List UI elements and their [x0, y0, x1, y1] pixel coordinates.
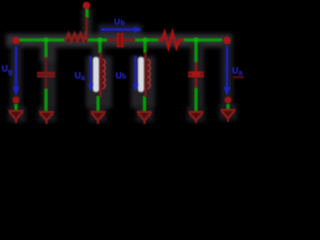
label across L1: [75, 71, 86, 83]
voltage arrow UBr (top, blue, right): [101, 26, 142, 33]
wire left rail segment: [19, 38, 65, 41]
label Ua (right): [232, 66, 243, 78]
terminal supply top (red circle): [83, 2, 91, 10]
pin lead from supply terminal down to rail: [85, 17, 87, 39]
svg-text:b: b: [122, 74, 126, 81]
wire stub above supply drop: [85, 9, 88, 18]
resistor R2 (zigzag, bright red): [158, 33, 184, 47]
wire stub under right bottom terminal: [226, 104, 229, 110]
choke L2: core bar (white): [138, 57, 144, 92]
terminal left bottom (red circle): [13, 97, 20, 104]
svg-text:a: a: [81, 75, 85, 82]
junction dot at C3 tap: [193, 37, 198, 42]
capacitor C2 (series, plates): [107, 33, 135, 48]
ground symbol under C1: [39, 112, 54, 124]
terminal right bottom (red circle): [225, 97, 232, 104]
wire drop to C3: [194, 40, 197, 62]
svg-text:b: b: [121, 20, 125, 27]
wire between R2 and right terminal: [183, 38, 222, 41]
voltage arrow across L2 (blue, down): [133, 56, 139, 92]
choke L2: winding: [145, 52, 151, 97]
ground symbol under L2: [137, 112, 152, 124]
wire stub under left bottom terminal: [14, 104, 17, 111]
jpeg halo band along main rail: [6, 8, 237, 122]
choke L1: winding: [100, 52, 106, 97]
wire between C2 and R2: [135, 38, 160, 41]
wire below C3 to ground: [194, 88, 197, 112]
junction dot at L2 tap: [142, 37, 147, 42]
resistor R1 (zigzag, dim red): [66, 35, 87, 42]
terminal left input (red circle): [12, 37, 19, 44]
svg-text:U: U: [114, 17, 120, 27]
wire below L1 to ground: [96, 96, 99, 112]
terminal right output (red circle): [223, 37, 231, 45]
ground symbol under left terminal: [9, 111, 24, 123]
wire drop to C1: [44, 40, 47, 58]
svg-text:g: g: [8, 69, 12, 76]
voltage arrow Ua (right, blue, down): [224, 46, 231, 96]
dim red value text under right label: [233, 76, 244, 78]
label across L2: [116, 71, 127, 81]
ground symbol under L1: [91, 112, 106, 124]
svg-text:a: a: [239, 70, 243, 77]
junction dot at C1 tap: [43, 37, 48, 42]
capacitor C3 (shunt, bright red): [188, 62, 204, 88]
wire drop to choke L2: [143, 40, 146, 53]
voltage arrow U1 (left, blue, down): [13, 46, 20, 96]
ground symbol under right terminal: [221, 110, 236, 122]
capacitor C1 (shunt, dim red): [37, 57, 55, 89]
label U1 (left): [2, 64, 13, 77]
label UBr (top): [114, 17, 125, 27]
wire: main horizontal rail y=40: [16, 9, 228, 112]
wire below C1 to ground: [44, 88, 47, 112]
wire drop to choke L1: [98, 40, 101, 53]
ground symbol under C3: [189, 112, 204, 123]
voltage arrow across L1 (blue, down): [88, 56, 94, 92]
wire below L2 to ground: [143, 96, 146, 112]
wire between R1 and C2: [88, 38, 107, 41]
choke L1: core bar (white): [93, 57, 99, 92]
junction dot at L1 tap: [97, 37, 102, 42]
